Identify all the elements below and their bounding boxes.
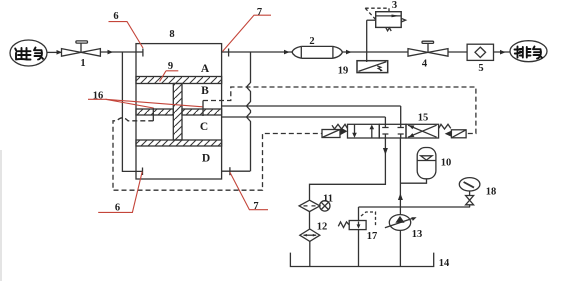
svg-text:10: 10 <box>441 158 452 169</box>
svg-text:8: 8 <box>169 29 174 40</box>
svg-text:A: A <box>201 63 210 75</box>
svg-text:9: 9 <box>168 61 173 72</box>
svg-text:5: 5 <box>478 63 483 74</box>
svg-text:12: 12 <box>317 222 328 233</box>
svg-text:16: 16 <box>93 91 104 102</box>
svg-text:4: 4 <box>422 59 428 70</box>
svg-text:7: 7 <box>253 201 258 212</box>
svg-text:D: D <box>202 152 210 164</box>
svg-text:2: 2 <box>309 36 314 47</box>
svg-text:7: 7 <box>257 7 262 18</box>
svg-text:B: B <box>201 85 209 97</box>
svg-text:C: C <box>200 121 208 133</box>
svg-text:14: 14 <box>439 258 450 269</box>
svg-text:19: 19 <box>338 66 349 77</box>
svg-text:6: 6 <box>115 203 120 214</box>
svg-text:18: 18 <box>486 187 497 198</box>
svg-text:15: 15 <box>418 113 429 124</box>
svg-text:11: 11 <box>323 194 333 205</box>
svg-text:3: 3 <box>392 0 397 11</box>
svg-text:1: 1 <box>80 58 85 69</box>
svg-text:13: 13 <box>412 229 423 240</box>
svg-text:6: 6 <box>113 11 118 22</box>
svg-text:17: 17 <box>367 231 378 242</box>
